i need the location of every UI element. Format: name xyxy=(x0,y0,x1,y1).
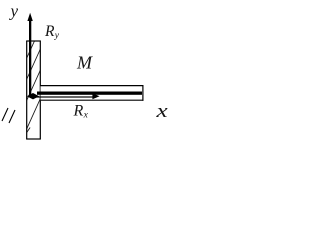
reaction R_x arrow (horizontal, inside beam) xyxy=(36,93,100,99)
reaction R_y arrow (vertical, through wall) xyxy=(27,13,32,95)
hatch tick outside wall bottom-left 1 xyxy=(2,108,8,121)
hatch tick outside wall bottom-left 2 xyxy=(9,110,15,123)
beam bottom edge xyxy=(41,99,144,101)
wall top cap xyxy=(26,40,40,42)
svg-text:y: y xyxy=(54,31,60,41)
svg-text:y: y xyxy=(9,1,19,20)
svg-text:x: x xyxy=(155,100,167,121)
wall right edge xyxy=(39,41,41,140)
beam (horizontal bar) xyxy=(41,85,144,101)
thick axial band inside beam xyxy=(37,92,142,95)
beam top edge xyxy=(41,85,144,87)
wall left edge xyxy=(26,41,28,140)
hatch lines xyxy=(26,27,41,60)
wall support (hatched strip) xyxy=(25,27,41,140)
node (pin at wall/beam junction) xyxy=(27,93,39,99)
wall bottom cap xyxy=(26,138,40,140)
beam right end cap xyxy=(142,85,144,101)
svg-text:R: R xyxy=(73,102,84,119)
svg-text:R: R xyxy=(44,23,55,40)
svg-text:M: M xyxy=(76,53,93,73)
svg-text:x: x xyxy=(83,110,89,120)
